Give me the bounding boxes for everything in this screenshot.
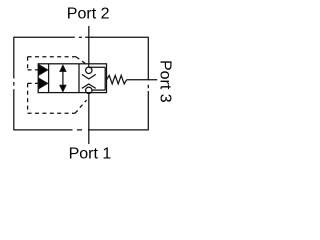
svg-text:Port 2: Port 2 <box>67 6 110 23</box>
wire port 3 line <box>127 79 158 81</box>
pilot line lower horizontal <box>28 112 75 114</box>
pilot line lower diagonal <box>75 100 87 113</box>
envelope top edge (chain line) <box>14 36 149 38</box>
shuttle piston bottom line <box>92 89 105 91</box>
envelope right edge (chain line) <box>147 37 149 131</box>
envelope bottom edge (chain line) <box>14 129 149 131</box>
wire port 1 line <box>88 94 90 145</box>
svg-text:Port 1: Port 1 <box>69 146 112 163</box>
wire port 2 line <box>88 26 90 67</box>
pilot line upper left vertical <box>27 57 29 70</box>
pilot line upper horizontal <box>28 56 76 58</box>
spring <box>107 75 127 84</box>
pilot line stub to lower triangle <box>28 82 39 84</box>
pilot line lower left vertical <box>27 83 29 113</box>
shuttle piston right line <box>104 67 106 90</box>
shuttle piston top line <box>89 66 105 68</box>
svg-text:Port 3: Port 3 <box>156 60 173 103</box>
divider line right section <box>78 64 80 93</box>
check valve CV1 seat <box>82 74 96 79</box>
valve body outline <box>38 64 106 93</box>
pilot triangle upper <box>39 65 48 75</box>
pilot line stub to upper triangle <box>28 69 39 71</box>
check valve CV2 ball <box>86 87 92 93</box>
pilot triangle lower <box>39 78 48 88</box>
pilot line upper diagonal <box>76 57 87 65</box>
envelope left edge (chain line) <box>13 37 15 131</box>
divider line left section <box>48 64 50 93</box>
check valve CV2 seat <box>82 84 96 88</box>
spool double arrow <box>60 66 66 92</box>
check valve CV1 ball <box>86 67 92 73</box>
